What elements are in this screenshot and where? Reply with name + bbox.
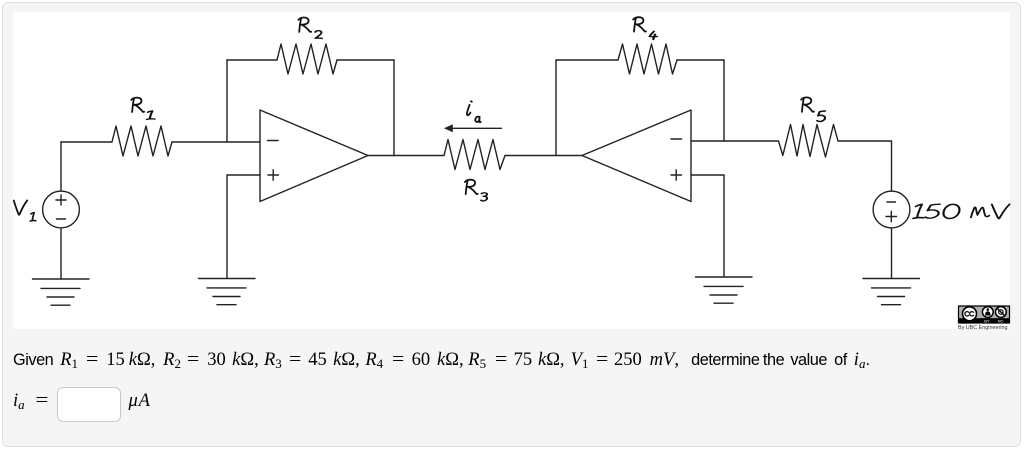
voltage source V1 xyxy=(43,191,80,228)
wire: feedback 2 top left segment xyxy=(556,59,618,61)
wire: U1 output to R3 xyxy=(368,155,444,157)
question text xyxy=(0,350,870,371)
label V1 xyxy=(14,200,36,221)
wire: R1 to op-amp inverting input xyxy=(172,141,260,143)
ground (U2 noninverting input) xyxy=(696,277,753,303)
wire: source 2 bottom lead xyxy=(891,228,893,278)
label ia xyxy=(467,101,481,122)
label: By UBC Engineering xyxy=(958,325,1007,331)
CC BY-NC license badge xyxy=(959,306,1010,324)
wire: feedback top right segment xyxy=(337,59,394,61)
wire: feedback 2 down to inverting input xyxy=(723,60,725,141)
resistor R5 xyxy=(779,125,839,158)
resistor R4 xyxy=(618,44,677,74)
wire: U2 noninverting input to ground xyxy=(691,175,724,277)
answer line xyxy=(0,387,1,421)
ground (below 150 mV source) xyxy=(863,279,920,305)
ground (U1 noninverting input) xyxy=(199,279,256,305)
label R4 xyxy=(633,17,657,39)
white schematic canvas xyxy=(13,12,1010,329)
wire: op-amp U1 noninverting input to ground xyxy=(227,175,260,278)
resistor R3 xyxy=(444,140,505,170)
wire: V1 to R1 xyxy=(61,141,112,143)
svg-text:NC: NC xyxy=(998,319,1004,324)
voltage source 150 mV xyxy=(873,191,910,228)
wire: V1 bottom lead xyxy=(60,228,62,278)
wire: feedback 2 top right segment xyxy=(677,59,724,61)
wire: feedback top left segment xyxy=(227,59,277,61)
svg-text:By UBC Engineering: By UBC Engineering xyxy=(958,325,1007,331)
wire: R5 to source corner xyxy=(838,141,892,191)
op-amp U1 xyxy=(260,110,368,202)
wire: feedback 2 tap up xyxy=(555,60,557,156)
resistor R2 xyxy=(277,44,337,74)
label 150 mV xyxy=(913,204,1009,218)
wire: feedback tap up from inverting input node xyxy=(226,60,228,142)
wire: U2 inverting input to R5 xyxy=(691,140,778,142)
wire: V1 top lead xyxy=(60,142,62,191)
resistor R1 xyxy=(112,126,172,156)
ground (below V1) xyxy=(33,279,90,305)
current arrow ia xyxy=(444,124,502,132)
label R1 xyxy=(131,98,154,120)
wire: R3 to op-amp U2 xyxy=(505,155,582,157)
svg-text:BY: BY xyxy=(984,319,990,324)
wire: feedback down to output xyxy=(393,60,395,156)
label R3 xyxy=(465,180,487,201)
label R5 xyxy=(801,97,825,121)
label R2 xyxy=(298,17,322,38)
op-amp U2 xyxy=(582,110,691,202)
